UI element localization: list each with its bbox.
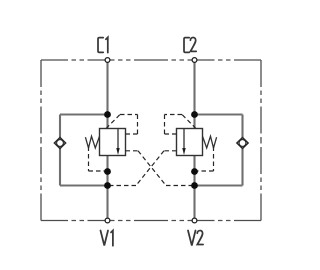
port V1 circle — [105, 218, 110, 223]
wire left bypass top horizontal — [60, 113, 108, 115]
wire right bypass vertical upper — [241, 115, 243, 138]
label V2 — [188, 231, 203, 246]
label C1 — [98, 37, 108, 52]
CB1 spring drain vertical (dashed) — [88, 147, 90, 172]
CB1 spring (left of box) — [85, 136, 99, 148]
wire left bypass vertical upper — [59, 115, 61, 138]
CB2 pilot into box left side (dashed) — [165, 133, 177, 135]
junction dot node V1 drain — [104, 168, 111, 175]
check valve CV1 (diamond with ball, left bypass) — [54, 138, 65, 149]
CB2 pilot diagonal (dashed) — [182, 115, 196, 129]
counterbalance valve CB1 body (left square) — [100, 129, 126, 156]
wire right bypass bottom horizontal — [195, 184, 243, 186]
wire C1 line upper segment (port C1 to valve box top) — [106, 60, 108, 129]
CB2 spring drain horizontal (dashed) — [195, 170, 214, 172]
cross pilot line CB1-to-V2 diagonal (dashed) — [138, 151, 166, 186]
cross pilot line to node V1 horizontal (dashed) — [108, 185, 137, 187]
junction dot node V1 bypass — [104, 182, 111, 189]
CB1 spring drain horizontal (dashed) — [89, 170, 108, 172]
wire right bypass top horizontal — [195, 113, 243, 115]
junction dot node V2 bypass — [191, 182, 198, 189]
junction dot node C1-branch — [104, 111, 111, 118]
wire C2 line lower segment (valve box bottom to port V2) — [193, 156, 195, 221]
CB1 pilot diagonal (dashed) — [106, 115, 120, 129]
CB1 remote pilot stub from box (dashed) — [126, 150, 139, 152]
wire left bypass vertical lower — [59, 148, 61, 185]
CB1 flow arrow (downward) — [116, 129, 119, 156]
CB1 pilot top horizontal (dashed) — [120, 114, 138, 116]
port V2 circle — [192, 218, 197, 223]
CB2 flow arrow (downward) — [182, 129, 185, 156]
junction dot node C2-branch — [191, 111, 198, 118]
port C1 circle — [105, 58, 110, 63]
CB1 pilot right vertical (dashed) — [137, 115, 139, 135]
CB2 pilot top horizontal (dashed) — [165, 114, 183, 116]
manifold enclosure boundary (phantom chain-line rectangle) — [41, 60, 261, 221]
port C2 circle — [192, 58, 197, 63]
CB1 pilot into box right side (dashed) — [126, 133, 138, 135]
cross pilot line to node V2 horizontal (dashed) — [166, 185, 195, 187]
label V1 — [101, 231, 113, 246]
check valve CV2 (diamond with ball, right bypass) — [237, 138, 248, 149]
counterbalance valve CB2 body (right square) — [177, 129, 203, 156]
wire C1 line lower segment (valve box bottom to port V1) — [106, 156, 108, 221]
CB2 spring drain vertical (dashed) — [213, 147, 215, 172]
wire left bypass bottom horizontal — [60, 184, 108, 186]
cross pilot line CB2-to-V1 diagonal (dashed) — [136, 151, 164, 186]
junction dot node V2 drain — [191, 168, 198, 175]
wire right bypass vertical lower — [241, 148, 243, 185]
CB2 remote pilot stub from box (dashed) — [164, 150, 177, 152]
label C2 — [184, 37, 196, 52]
CB2 spring (right of box) — [203, 136, 217, 148]
wire C2 line upper segment (port C2 to valve box top) — [193, 60, 195, 129]
CB2 pilot left vertical (dashed) — [164, 115, 166, 135]
